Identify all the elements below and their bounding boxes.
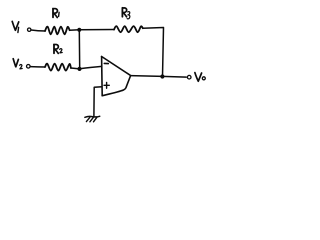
wire V2 terminal to R2 <box>30 66 45 68</box>
junction output node <box>160 74 164 78</box>
wire R1 to summing node <box>70 29 80 31</box>
wire node A to R3 <box>79 29 114 31</box>
label R3 <box>122 8 129 19</box>
wire vertical junction A to B <box>78 30 80 69</box>
wire node B to op-amp inverting input <box>80 66 102 68</box>
label R2 <box>54 44 62 53</box>
label V1 <box>12 21 19 32</box>
junction node A (summing node, top) <box>77 28 81 32</box>
op-amp U1 <box>102 57 131 96</box>
label R1 <box>53 9 59 18</box>
junction node B (bottom) <box>77 67 81 71</box>
label Vo <box>195 73 205 82</box>
wire non-inverting input to ground <box>94 87 102 116</box>
label V2 <box>13 59 22 69</box>
resistor R1 <box>45 27 70 35</box>
wire R2 to junction node B <box>71 67 80 70</box>
wire op-amp output to Vo terminal <box>131 76 187 78</box>
op-amp non-inverting pin mark (+) <box>104 82 109 88</box>
resistor R3 <box>114 26 143 32</box>
ground <box>85 116 100 122</box>
wire V1 terminal to R1 <box>31 30 45 31</box>
node V1 input terminal <box>28 28 31 31</box>
node V2 input terminal <box>27 65 31 69</box>
resistor R2 <box>45 64 71 71</box>
node Vo output terminal <box>187 75 191 79</box>
op-amp inverting pin mark (-) <box>104 62 108 64</box>
wire R3 to output node (right feedback leg) <box>143 28 164 77</box>
